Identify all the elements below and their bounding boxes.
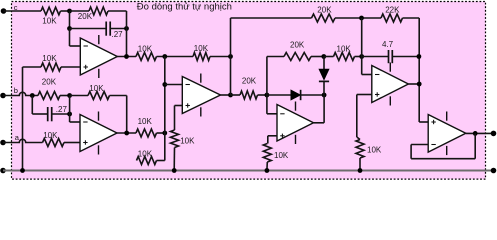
- svg-text:10K: 10K: [337, 44, 352, 53]
- resistor R2 20K: [89, 7, 108, 15]
- wire junction down to U4b minus: [266, 95, 268, 114]
- op-amp U2: [80, 112, 117, 155]
- junction U3 output: [228, 93, 233, 98]
- junction b / C2 branch: [30, 93, 35, 98]
- wire R1 to node: [61, 10, 70, 12]
- wire to U4 minus input: [362, 74, 372, 76]
- port b terminal: [0, 93, 6, 99]
- junction cap C1 left: [67, 26, 72, 31]
- ground rail right terminal: [491, 168, 497, 174]
- svg-text:10K: 10K: [367, 146, 382, 155]
- resistor R11 10K to ground: [171, 130, 179, 148]
- resistor R14 20K: [240, 91, 258, 99]
- feedback vertical up: [410, 145, 412, 159]
- node A junction: [162, 54, 167, 59]
- port a terminal: [0, 140, 6, 146]
- capacitor C1 .27: [106, 22, 110, 36]
- resistor R6 10K dangling: [137, 157, 157, 165]
- svg-text:10K: 10K: [180, 137, 195, 146]
- wire R17 to rail: [266, 162, 268, 171]
- resistor R13 22K: [381, 14, 403, 22]
- node junction c/R1/R2: [67, 9, 72, 14]
- wire U4b plus: [268, 135, 277, 137]
- wire U4 plus: [357, 94, 372, 96]
- top row wire: [231, 17, 312, 19]
- resistor R16 10K: [334, 53, 355, 61]
- wire D2 cathode to junction: [323, 81, 325, 95]
- wire down to U1 minus: [69, 29, 71, 47]
- resistor R12 20K: [312, 14, 336, 22]
- capacitor C2 .27: [48, 107, 52, 121]
- wire R4 to R5 through node A: [157, 56, 194, 58]
- wire node down to U2 minus: [69, 96, 71, 123]
- node A vertical wire: [164, 57, 166, 161]
- resistor R8 10K feedback: [88, 92, 110, 100]
- diode D1: [291, 90, 301, 100]
- node B junction: [359, 54, 364, 59]
- wire to R15: [267, 56, 284, 58]
- wire R15 to junction: [311, 56, 324, 58]
- wire node down to cap branch: [69, 11, 71, 29]
- wire to R16: [324, 56, 334, 58]
- port c terminal: [1, 8, 7, 14]
- resistor R3 10K: [41, 63, 61, 71]
- wire to U2 minus input: [70, 121, 80, 123]
- junction R17 to rail: [265, 168, 270, 173]
- ground rail left terminal: [0, 168, 6, 174]
- junction ground column to rail: [20, 168, 25, 173]
- wire to C1: [70, 28, 107, 30]
- svg-text:20K: 20K: [42, 78, 57, 87]
- wire a with hop over ground column: [3, 139, 43, 142]
- wire node to R8: [70, 95, 88, 97]
- svg-text:10K: 10K: [42, 54, 57, 63]
- wire right column to U5 plus input: [419, 121, 428, 123]
- wire U5 output to terminal: [466, 132, 494, 134]
- wire R3 to ground column: [23, 66, 42, 68]
- wire U4b output: [314, 122, 325, 124]
- output terminal: [491, 131, 497, 137]
- svg-text:20K: 20K: [242, 77, 257, 86]
- svg-text:b: b: [14, 86, 18, 95]
- junction diode row: [265, 93, 270, 98]
- wire D1 cathode to junction: [301, 94, 325, 96]
- wire U3 output: [221, 94, 231, 96]
- ground column vertical wire: [22, 67, 24, 171]
- wire R10 to node A column: [157, 132, 165, 134]
- wire to D1 anode: [267, 94, 291, 96]
- wire node B to C3: [362, 56, 389, 58]
- wire C3 to right column: [392, 56, 419, 58]
- resistor R18 10K to ground: [356, 140, 364, 159]
- junction D1/D2/U4b output: [322, 93, 327, 98]
- wire R14 to junction: [258, 94, 267, 96]
- junction R15/R16/D2: [321, 54, 326, 59]
- svg-text:20K: 20K: [317, 6, 332, 15]
- svg-text:.27: .27: [56, 105, 68, 114]
- op-amp U5: [372, 63, 409, 106]
- svg-text:.27: .27: [112, 30, 124, 39]
- junction R11 to rail: [172, 168, 177, 173]
- wire node to R2: [70, 10, 90, 12]
- svg-text:22K: 22K: [385, 6, 400, 15]
- resistor R4 10K: [136, 53, 157, 61]
- wire to R14: [231, 94, 241, 96]
- junction U4 output right column: [417, 82, 422, 87]
- wire U1 plus to R3: [61, 66, 80, 68]
- wire jog to R18: [357, 137, 360, 140]
- svg-text:10K: 10K: [43, 131, 58, 140]
- feedback vertical to U2 output: [126, 96, 128, 134]
- wire C1 to feedback vertical: [110, 28, 126, 30]
- junction R18 to rail: [358, 168, 363, 173]
- svg-text:10K: 10K: [138, 44, 153, 53]
- svg-text:20K: 20K: [290, 40, 305, 49]
- junction U1 output / feedback: [124, 54, 129, 59]
- wire R7 to node: [60, 95, 70, 97]
- wire R2 to feedback corner: [108, 10, 127, 12]
- op-amp U3: [182, 74, 220, 117]
- resistor R17 10K to ground: [263, 144, 271, 163]
- junction C3 right column: [417, 54, 422, 59]
- wire to U3 minus input: [165, 84, 183, 86]
- capacitor C3 4.7: [389, 50, 393, 63]
- resistor R5 10K feedback U3: [193, 53, 210, 61]
- op-amp U1: [80, 35, 117, 78]
- op-amp U6: [428, 112, 466, 156]
- wire R8 to feedback corner: [110, 95, 127, 97]
- top row wire to right column: [403, 17, 420, 19]
- wire down to R18: [356, 95, 358, 138]
- svg-text:10K: 10K: [138, 117, 153, 126]
- resistor R15 20K: [284, 53, 311, 61]
- wire down to R17: [267, 136, 269, 144]
- wire b junction down to C2: [31, 96, 33, 115]
- wire down to R11: [174, 106, 176, 131]
- wire node B down to U4 minus: [361, 57, 363, 75]
- resistor R7 20K: [38, 92, 60, 100]
- wire U4b output up to diode junction: [323, 95, 325, 123]
- wire R18 to rail: [359, 158, 361, 171]
- wire to C2 left plate: [32, 113, 47, 115]
- junction U5 output feedback: [473, 131, 478, 136]
- svg-text:10K: 10K: [138, 150, 153, 159]
- wire R5 to U3 output column: [210, 56, 231, 58]
- junction b row / U2 minus branch: [67, 93, 72, 98]
- svg-text:20K: 20K: [78, 12, 93, 21]
- resistor R9 10K: [43, 139, 65, 147]
- wire R16 to node B: [355, 56, 363, 58]
- wire R9 to U2 plus input: [64, 142, 80, 144]
- resistor R10 10K: [136, 129, 157, 137]
- wire corner to R6: [157, 160, 165, 162]
- svg-text:Đo dòng thử tự nghịch: Đo dòng thử tự nghịch: [137, 1, 232, 12]
- wire C2 to node vertical: [52, 113, 70, 115]
- feedback vertical to U1 output: [126, 11, 128, 57]
- node B column top: [361, 18, 363, 57]
- junction node A column / U2 path: [162, 131, 167, 136]
- junction node A to U3 minus: [162, 82, 167, 87]
- wire U2 output: [117, 132, 137, 134]
- svg-text:4.7: 4.7: [382, 40, 394, 49]
- resistor R1 10K: [41, 7, 61, 15]
- svg-text:10K: 10K: [274, 151, 289, 160]
- wire c to R1: [4, 10, 42, 12]
- svg-text:10K: 10K: [194, 44, 209, 53]
- feedback bottom wire: [411, 158, 475, 160]
- junction C1 right on feedback: [124, 26, 129, 31]
- schematic sheet (dashed border, pink fill): [12, 2, 486, 180]
- junction feedback / top row column: [228, 54, 233, 59]
- wire U4 output: [408, 83, 419, 85]
- svg-text:10K: 10K: [42, 17, 57, 26]
- wire R11 to rail: [173, 148, 175, 171]
- wire b with hop over ground column: [3, 92, 38, 95]
- junction C2 right: [67, 112, 72, 117]
- junction U2 output / feedback: [124, 131, 129, 136]
- junction top row / node B column: [359, 16, 364, 21]
- wire node to D2 anode: [323, 57, 325, 71]
- wire feedback to U5 minus input: [411, 144, 428, 146]
- right column vertical wire: [418, 18, 420, 122]
- op-amp U4: [277, 102, 314, 145]
- wire junction up to 20K row: [266, 57, 268, 96]
- wire to U1 minus input: [70, 45, 81, 47]
- column U3 output to top row: [230, 18, 232, 95]
- wire to U4b minus input: [267, 113, 277, 115]
- svg-text:10K: 10K: [89, 84, 104, 93]
- wire U3 plus: [175, 105, 183, 107]
- feedback vertical down: [474, 133, 476, 158]
- wire U1 output: [117, 56, 137, 58]
- ground rail wire: [3, 170, 494, 172]
- top row wire to R13: [335, 17, 381, 19]
